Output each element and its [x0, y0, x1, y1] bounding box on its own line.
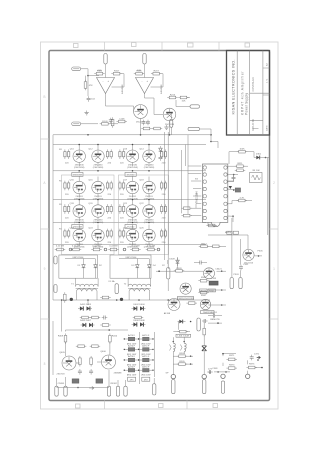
capacitor C31 electrolytic — [209, 281, 218, 285]
svg-text:NJM4558: NJM4558 — [122, 84, 124, 94]
grid resistor R601 — [143, 337, 149, 340]
resistor R53 vertical — [203, 326, 206, 337]
wire pins right a — [227, 174, 238, 176]
output transistor Q18 — [143, 181, 155, 193]
zone label top 1 — [245, 43, 250, 47]
svg-text:C3421: C3421 — [215, 269, 222, 271]
svg-text:A470 F: A470 F — [128, 334, 136, 337]
resistor R20 — [181, 207, 192, 210]
svg-text:A470 F: A470 F — [142, 365, 150, 368]
node psu bus a — [61, 299, 63, 301]
label box bias right — [125, 173, 136, 177]
arrow bottom — [89, 387, 94, 390]
resistor R25 — [206, 224, 217, 227]
svg-text:(2SK1058): (2SK1058) — [127, 167, 138, 169]
wire Q15 vertical — [78, 177, 80, 182]
svg-text:(2SK1058): (2SK1058) — [93, 167, 104, 169]
node R24 a — [233, 174, 235, 176]
svg-text:10K: 10K — [137, 70, 141, 72]
grid resistor R610 — [128, 348, 134, 351]
connector pin vertical — [170, 119, 173, 127]
wire R7 right — [187, 97, 190, 99]
wire Q1 emitter down — [140, 118, 142, 134]
svg-text:A470 F: A470 F — [142, 345, 150, 348]
zone tick top c — [218, 42, 220, 51]
svg-text:L301 3.3uH: L301 3.3uH — [178, 336, 190, 338]
resistor R51 — [177, 353, 188, 357]
resistor R22b — [235, 169, 246, 172]
diode pair D38 D39 — [132, 322, 146, 326]
svg-text:D406 D408: D406 D408 — [133, 320, 145, 322]
wire Q40 Q41 link — [76, 362, 80, 364]
wire stub b4 — [117, 380, 119, 386]
node L1 top — [173, 341, 175, 343]
resistor R4 feedback — [134, 71, 145, 75]
title block divider v2 — [249, 51, 251, 136]
transformer T2 bottom leads — [128, 291, 130, 300]
IC U2 pin L4 — [203, 187, 206, 190]
inductor L2 arrows — [180, 345, 182, 348]
svg-text:-: - — [103, 79, 104, 83]
bus wire grid mid2 — [53, 199, 206, 201]
wire IC pin L5 — [193, 195, 201, 197]
left rail vertical — [52, 145, 54, 301]
diode D22 zener — [176, 258, 180, 266]
zone label bottom 3 — [159, 404, 164, 408]
grid resistor R621 — [143, 358, 149, 361]
svg-text:DATE: DATE — [265, 125, 268, 131]
wire F11 leads — [167, 264, 169, 269]
wire R21 to pin — [191, 215, 201, 217]
vertical rail left of IC — [181, 150, 183, 213]
capacitor C2 — [142, 120, 151, 126]
wire D30 tops — [83, 259, 85, 263]
connector CN5 — [124, 386, 127, 396]
resistor R43 — [76, 345, 87, 348]
wire bottom link — [57, 387, 110, 389]
wire n2 — [208, 289, 226, 291]
wire R22 — [227, 165, 237, 167]
wire R41 down — [65, 342, 67, 356]
node IC right — [232, 215, 234, 217]
fuse F11 — [167, 268, 170, 280]
svg-text:2SD718: 2SD718 — [57, 374, 66, 376]
wire IC bottom net — [208, 225, 216, 227]
svg-text:R371: R371 — [229, 355, 235, 357]
resistor R62 — [246, 366, 257, 369]
wire Q22 vertical — [148, 200, 150, 205]
output transistor Q23 — [73, 229, 85, 241]
transistor Q31 — [180, 283, 191, 294]
gate resistor pair row3 right — [119, 204, 125, 214]
grid resistor R611 — [143, 348, 149, 351]
label box bus a — [227, 231, 232, 234]
title block divider h3 col4 — [263, 67, 270, 69]
wire D50 down — [177, 322, 179, 330]
capacitor C4 — [109, 118, 113, 124]
inductor L1 arrows — [170, 345, 172, 348]
label box R343 — [200, 289, 208, 292]
svg-text:0.22 5W: 0.22 5W — [56, 245, 65, 247]
svg-text:R409: R409 — [58, 336, 64, 338]
connector P1 arrow — [190, 105, 200, 108]
sheet inner frame — [49, 51, 270, 401]
svg-text:47K: 47K — [89, 85, 93, 87]
title block divider v1 — [236, 51, 238, 136]
rectifier box BR1 — [59, 255, 98, 278]
IC U2 body — [203, 164, 228, 222]
svg-text:R410: R410 — [112, 336, 118, 338]
node R60b — [225, 371, 227, 373]
svg-text:D402 D404: D402 D404 — [133, 304, 145, 306]
IC U2 pin R1 — [224, 166, 227, 169]
wire R23 net — [229, 151, 239, 153]
wire R60 top — [222, 354, 224, 356]
zone label top 2 — [188, 43, 194, 47]
pin P12 — [197, 318, 200, 331]
wire U1A out — [105, 94, 107, 107]
svg-text:4.7K: 4.7K — [240, 198, 245, 200]
bus wire grid mid3 — [53, 222, 206, 224]
svg-text:0.22 5W: 0.22 5W — [109, 245, 118, 247]
wire D22 — [177, 257, 179, 266]
node chain — [158, 270, 160, 272]
capacitor C20 — [232, 175, 236, 181]
speaker terminal TB1 — [171, 374, 175, 378]
title block divider h2 — [250, 120, 263, 122]
bus wire grid feed top — [53, 144, 206, 146]
svg-text:R375: R375 — [249, 363, 255, 365]
svg-text:D301: D301 — [256, 153, 262, 155]
vertical wire feed IC 2 — [185, 145, 187, 167]
svg-text:9: 9 — [44, 267, 46, 271]
node C60 — [257, 359, 259, 361]
gate resistor pair row4 outer — [161, 229, 167, 239]
IC U2 pin R5 — [224, 195, 227, 198]
label box bias right2 — [125, 225, 136, 229]
zone tick right a — [270, 228, 279, 230]
resistor R42 — [109, 333, 112, 344]
gate resistor pair row2 left — [64, 181, 70, 191]
connector CN3 — [107, 386, 110, 396]
svg-text:P303: P303 — [233, 274, 239, 276]
arrow A1 — [257, 356, 261, 359]
capacitor C40 — [78, 369, 82, 375]
capacitor C30 — [239, 265, 243, 271]
transistor Q33 — [200, 299, 210, 309]
diode pair D34 D35 — [78, 306, 92, 310]
svg-text:A1358: A1358 — [164, 312, 171, 315]
capacitor C52 — [202, 319, 208, 323]
wire pin bottom — [227, 215, 233, 217]
resistor R1 — [84, 80, 93, 91]
wire pin vertical — [170, 114, 172, 119]
svg-text:R347: R347 — [201, 295, 207, 297]
capacitor C60 — [250, 355, 254, 361]
node b1 — [77, 387, 79, 389]
grid resistor R630 — [128, 369, 134, 372]
svg-text:A470 F: A470 F — [128, 355, 136, 358]
wire node 141 right — [211, 141, 218, 143]
grid junction dots row3 — [78, 199, 80, 201]
output transistor Q25 — [126, 229, 138, 241]
svg-text:C3421(2SC2235): C3421(2SC2235) — [177, 298, 194, 300]
svg-text:-: - — [142, 79, 143, 83]
wire Q18 vertical — [148, 177, 150, 182]
svg-text:A470 F: A470 F — [142, 355, 150, 358]
resistor R61 — [226, 367, 237, 370]
wire fb2 — [159, 73, 163, 75]
op-amp U1A — [97, 78, 115, 94]
node bus b — [140, 134, 142, 136]
gate resistor pair row4 left — [64, 229, 70, 239]
wire U1B to Q2 — [145, 97, 155, 99]
gate resistor pair row2 right — [119, 181, 125, 191]
transformer T1 leads — [75, 278, 77, 286]
resistor R60 — [226, 358, 237, 361]
pin P11 — [239, 278, 242, 289]
diode D33 — [148, 263, 152, 271]
resistor R21 — [181, 214, 192, 217]
wire left rail top — [52, 135, 54, 145]
zone tick right b — [270, 318, 279, 320]
wire Q30 right — [254, 255, 262, 257]
zone label bottom 4 — [76, 404, 81, 408]
resistor R30 — [64, 292, 67, 303]
wire F1 down — [105, 64, 107, 78]
diode D32 — [136, 263, 140, 271]
svg-text:8: 8 — [44, 362, 46, 366]
wire stub b1 — [56, 378, 58, 386]
capacitor C3 — [146, 120, 150, 126]
zone tick bottom a — [104, 401, 106, 410]
diode D10 — [159, 146, 163, 154]
IC U2 pin L8 — [203, 216, 206, 219]
sheet outer border — [41, 42, 279, 409]
resistor R35 — [198, 279, 209, 282]
wire BR1 top — [65, 258, 95, 260]
wire bias top — [52, 321, 54, 375]
wire R51 — [185, 355, 193, 357]
vertical rail right of IC — [267, 158, 269, 236]
node psu bus b — [87, 299, 89, 301]
resistor network RN1 — [250, 173, 263, 183]
node psu bus e — [167, 299, 169, 301]
gate resistor pair row4 mid — [106, 229, 112, 239]
resistor R41 — [64, 333, 67, 344]
IC U2 pin L6 — [203, 202, 206, 205]
speaker terminal TB4 — [246, 374, 250, 378]
resistor R46 — [90, 356, 93, 367]
wire Q11 vertical — [78, 145, 80, 150]
zone tick top a — [104, 42, 106, 51]
LED DS1 — [70, 298, 73, 301]
wire C32 — [208, 315, 211, 317]
wire Q19 vertical — [78, 200, 80, 205]
wire D32 tops — [136, 259, 138, 263]
transistor Q1 — [134, 105, 148, 119]
svg-text:REMOTE: REMOTE — [210, 319, 220, 321]
wire fb loop — [120, 73, 124, 75]
svg-text:P305: P305 — [257, 250, 263, 252]
svg-text:100V1: 100V1 — [211, 312, 218, 314]
node R51 — [190, 355, 192, 357]
grid resistor R631 — [143, 369, 149, 372]
capacitor C54 — [207, 369, 213, 375]
resistor R26 — [199, 243, 210, 247]
node D20 — [265, 157, 267, 159]
pin P10 — [230, 278, 233, 289]
svg-text:(2SK1058): (2SK1058) — [144, 167, 155, 169]
label box Q31 — [178, 296, 194, 299]
resistor R44 — [90, 345, 101, 348]
emitter ring a — [69, 248, 72, 251]
resistor R11 — [152, 127, 163, 130]
node n2 — [221, 289, 223, 291]
diode D30 — [82, 263, 86, 271]
zone tick left a — [41, 138, 50, 140]
wire Q21 vertical — [132, 200, 134, 205]
module box left — [62, 175, 115, 255]
svg-text:R317: R317 — [201, 243, 207, 245]
wire Q12 vertical — [97, 145, 99, 150]
transformer T1 winding upper — [76, 284, 99, 286]
wire P1 — [176, 106, 190, 108]
node psu bus c — [116, 299, 118, 301]
wire J2 right — [81, 123, 98, 125]
svg-text:SG: SG — [195, 179, 198, 181]
capacitor C41 — [89, 369, 93, 375]
title block divider h1 — [250, 92, 270, 94]
resistor R45 — [79, 356, 82, 367]
wire net down — [207, 222, 209, 226]
svg-text:R213: R213 — [170, 95, 176, 97]
svg-text:R207: R207 — [154, 71, 160, 73]
IC U2 pin R4 — [224, 187, 227, 190]
gate resistor pair row2 outer — [161, 181, 167, 191]
ground G2 — [164, 125, 168, 129]
node br2 — [261, 367, 263, 369]
svg-text:R305: R305 — [179, 361, 185, 363]
node L2 top — [183, 341, 185, 343]
gate resistor pair row1 mid — [106, 149, 112, 159]
IC U2 pin R6 — [224, 202, 227, 205]
title block outline — [227, 51, 270, 136]
grid label box right — [142, 377, 150, 381]
wire psu v1 — [87, 300, 89, 305]
wire D32 bots — [136, 271, 138, 279]
label box Q33 — [201, 311, 215, 314]
svg-text:Power Supply: Power Supply — [245, 93, 249, 115]
wire IC pin L4 — [193, 188, 201, 190]
label box bias left2 — [72, 225, 83, 229]
capacitor C1 — [87, 96, 96, 102]
wire C21 — [227, 188, 235, 191]
svg-text:KISAN ELECTRONICS IND.: KISAN ELECTRONICS IND. — [230, 60, 235, 115]
resistor R32 — [80, 316, 91, 319]
output transistor Q22 — [143, 205, 155, 217]
svg-text:R103: R103 — [102, 121, 108, 123]
svg-text:KRB-47.48: KRB-47.48 — [252, 119, 255, 131]
transformer T1 winding lower — [77, 289, 97, 291]
label box R345 — [208, 289, 216, 292]
node R52 — [190, 363, 192, 365]
wire D30 bots — [83, 271, 85, 279]
transformer T1 bottom leads — [76, 291, 78, 300]
svg-text:(R3) 10W: (R3) 10W — [127, 375, 137, 377]
wire Q2 emitter down — [169, 121, 171, 135]
bus wire main horizontal — [53, 134, 211, 136]
svg-text:A470 F: A470 F — [128, 365, 136, 368]
grid resistor R600 — [128, 337, 134, 340]
IC U2 pin L1 — [203, 166, 206, 169]
resistor R23 — [237, 149, 248, 153]
wire Q34 right — [217, 270, 227, 272]
resistor R40 — [100, 324, 111, 327]
svg-text:C371: C371 — [254, 353, 260, 355]
gate resistor pair row3 left — [64, 204, 70, 214]
node bias — [108, 329, 110, 331]
wire R1 stub — [85, 76, 87, 81]
gate resistor pair row4 right — [119, 229, 125, 239]
title block divider h4 col4 — [263, 94, 270, 96]
node P2 a — [210, 134, 212, 136]
svg-text:0.22 5W: 0.22 5W — [72, 245, 81, 247]
output transistor Q19 — [73, 205, 85, 217]
transistor Q32 — [168, 298, 180, 310]
wire chain — [156, 270, 176, 272]
input jack J2 — [72, 122, 81, 126]
node R24 b — [233, 189, 235, 191]
zone tick left c — [41, 318, 50, 320]
wire Q23 vertical — [78, 225, 80, 230]
resistor R22 — [235, 163, 246, 167]
transformer T2 winding lower — [129, 289, 150, 291]
wire F2 down — [144, 64, 146, 78]
wire pins right b — [227, 181, 234, 183]
zone tick bottom b — [186, 401, 188, 410]
diode X pair D51 — [202, 346, 207, 351]
wire BR2 top — [119, 258, 149, 260]
vertical rail channel A — [164, 132, 166, 260]
node n1 — [221, 270, 223, 272]
svg-text:CONTINUED: CONTINUED — [252, 77, 255, 91]
wire br2 — [247, 360, 249, 364]
zone label bottom 2 — [213, 404, 218, 408]
IC U2 pin L2 — [203, 173, 206, 176]
IC U2 pin L5 — [203, 195, 206, 198]
inductor L2 right — [184, 343, 186, 351]
resistor R36 — [198, 291, 209, 294]
wire J2 net right — [108, 123, 118, 125]
svg-text:0.22 5W: 0.22 5W — [131, 245, 140, 247]
output transistor Q24 — [92, 229, 104, 241]
transformer T1 core lines — [76, 287, 99, 289]
diode pair D36 D37 — [132, 306, 146, 310]
resistor R7 — [178, 96, 189, 99]
output transistor Q21 — [126, 205, 138, 217]
capacitor C10 — [159, 155, 163, 161]
grid junction dots row1 — [78, 144, 80, 146]
wire U1A to Q1 — [106, 105, 134, 107]
wire C34 — [194, 262, 198, 264]
resistor R50 — [178, 330, 189, 333]
wire Q24 vertical — [97, 225, 99, 230]
label box bias left — [72, 173, 83, 177]
svg-text:A470 F: A470 F — [142, 334, 150, 337]
module box right — [119, 175, 169, 255]
psu bus wire — [53, 299, 210, 301]
